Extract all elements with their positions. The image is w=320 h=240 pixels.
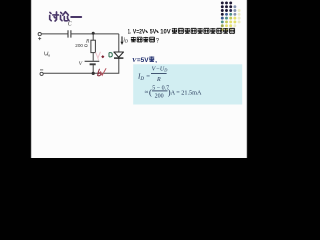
letterbox soft edges xyxy=(31,0,32,158)
annotation: red letter b xyxy=(98,69,101,76)
resistor R body xyxy=(91,40,96,52)
logo dot matrix xyxy=(221,1,241,30)
text glyph 电 xyxy=(223,28,228,34)
text glyph 管 xyxy=(191,28,196,33)
node B (junction dot bottom) xyxy=(92,72,95,75)
text glyph 二 xyxy=(178,28,183,33)
wire top: input + terminal to capacitor xyxy=(41,33,67,35)
svg-text:C: C xyxy=(68,22,72,28)
text glyph 中 xyxy=(197,28,202,34)
text glyph 时 xyxy=(172,28,177,34)
video letterbox background xyxy=(0,0,280,158)
wire right branch: corner down to diode anode xyxy=(118,34,120,52)
terminal - (input bottom) xyxy=(40,72,43,75)
text glyph 流 xyxy=(217,28,222,33)
annotation: red check mark xyxy=(101,69,106,76)
wire bottom: node B to - terminal xyxy=(43,72,92,74)
wire right branch: diode cathode down and along bottom to node B xyxy=(95,58,119,73)
current arrow iD xyxy=(121,36,123,42)
battery V long plate (+) xyxy=(85,60,100,62)
formula highlight box xyxy=(133,64,242,104)
svg-text:≈: ≈ xyxy=(145,89,149,96)
wire: resistor R to battery V xyxy=(92,53,94,61)
svg-text:200: 200 xyxy=(155,94,164,100)
svg-text:A = 21.5mA: A = 21.5mA xyxy=(171,89,202,96)
label D (green) xyxy=(109,53,112,57)
text glyph 直 xyxy=(210,28,215,34)
annotation: dark red diamond marker xyxy=(101,55,104,58)
text glyph 极 xyxy=(185,28,190,34)
svg-text:V: V xyxy=(79,61,83,67)
polarity plus sign xyxy=(38,37,41,40)
capacitor C plates xyxy=(68,30,71,37)
annotation: pink check mark near battery xyxy=(96,52,101,58)
terminal + (input top) xyxy=(38,33,41,36)
text glyph 为 xyxy=(137,37,142,42)
svg-text:V=2V: V=2V xyxy=(133,29,146,36)
ideographic comma xyxy=(146,31,147,33)
diode D cathode bar xyxy=(114,57,123,59)
svg-text:UD: UD xyxy=(160,67,168,73)
slide background xyxy=(31,0,247,158)
svg-text:5V: 5V xyxy=(150,29,157,36)
text glyph 流 xyxy=(230,28,235,33)
battery V short plate (-) xyxy=(90,63,96,65)
diode D body (hollow triangle) xyxy=(114,52,124,57)
polarity minus sign xyxy=(40,69,43,71)
svg-text:=5V: =5V xyxy=(137,58,149,64)
svg-text:10V: 10V xyxy=(160,29,171,36)
text glyph 多 xyxy=(143,37,148,42)
title 讨论一 (Discussion 1) xyxy=(50,12,81,21)
svg-text:R: R xyxy=(156,77,161,83)
node A (junction dot top) xyxy=(92,32,95,35)
wire top: capacitor to node A and to right branch corner xyxy=(72,33,119,35)
svg-text:=: = xyxy=(146,73,150,80)
ideographic comma xyxy=(157,31,158,33)
wire: battery V to node B xyxy=(92,65,94,73)
label ui (input voltage) xyxy=(44,52,49,57)
svg-text:iD: iD xyxy=(123,38,128,44)
text glyph 的 xyxy=(204,28,209,33)
text glyph 时 xyxy=(149,56,154,61)
svg-text:1.: 1. xyxy=(128,29,131,36)
wire middle branch: node A to resistor R xyxy=(92,33,94,40)
text glyph 各 xyxy=(131,37,136,42)
formula line 1: ID = (V - UD)/R xyxy=(137,66,202,99)
svg-text:200 Ω: 200 Ω xyxy=(75,43,88,48)
text glyph 少 xyxy=(150,37,155,42)
